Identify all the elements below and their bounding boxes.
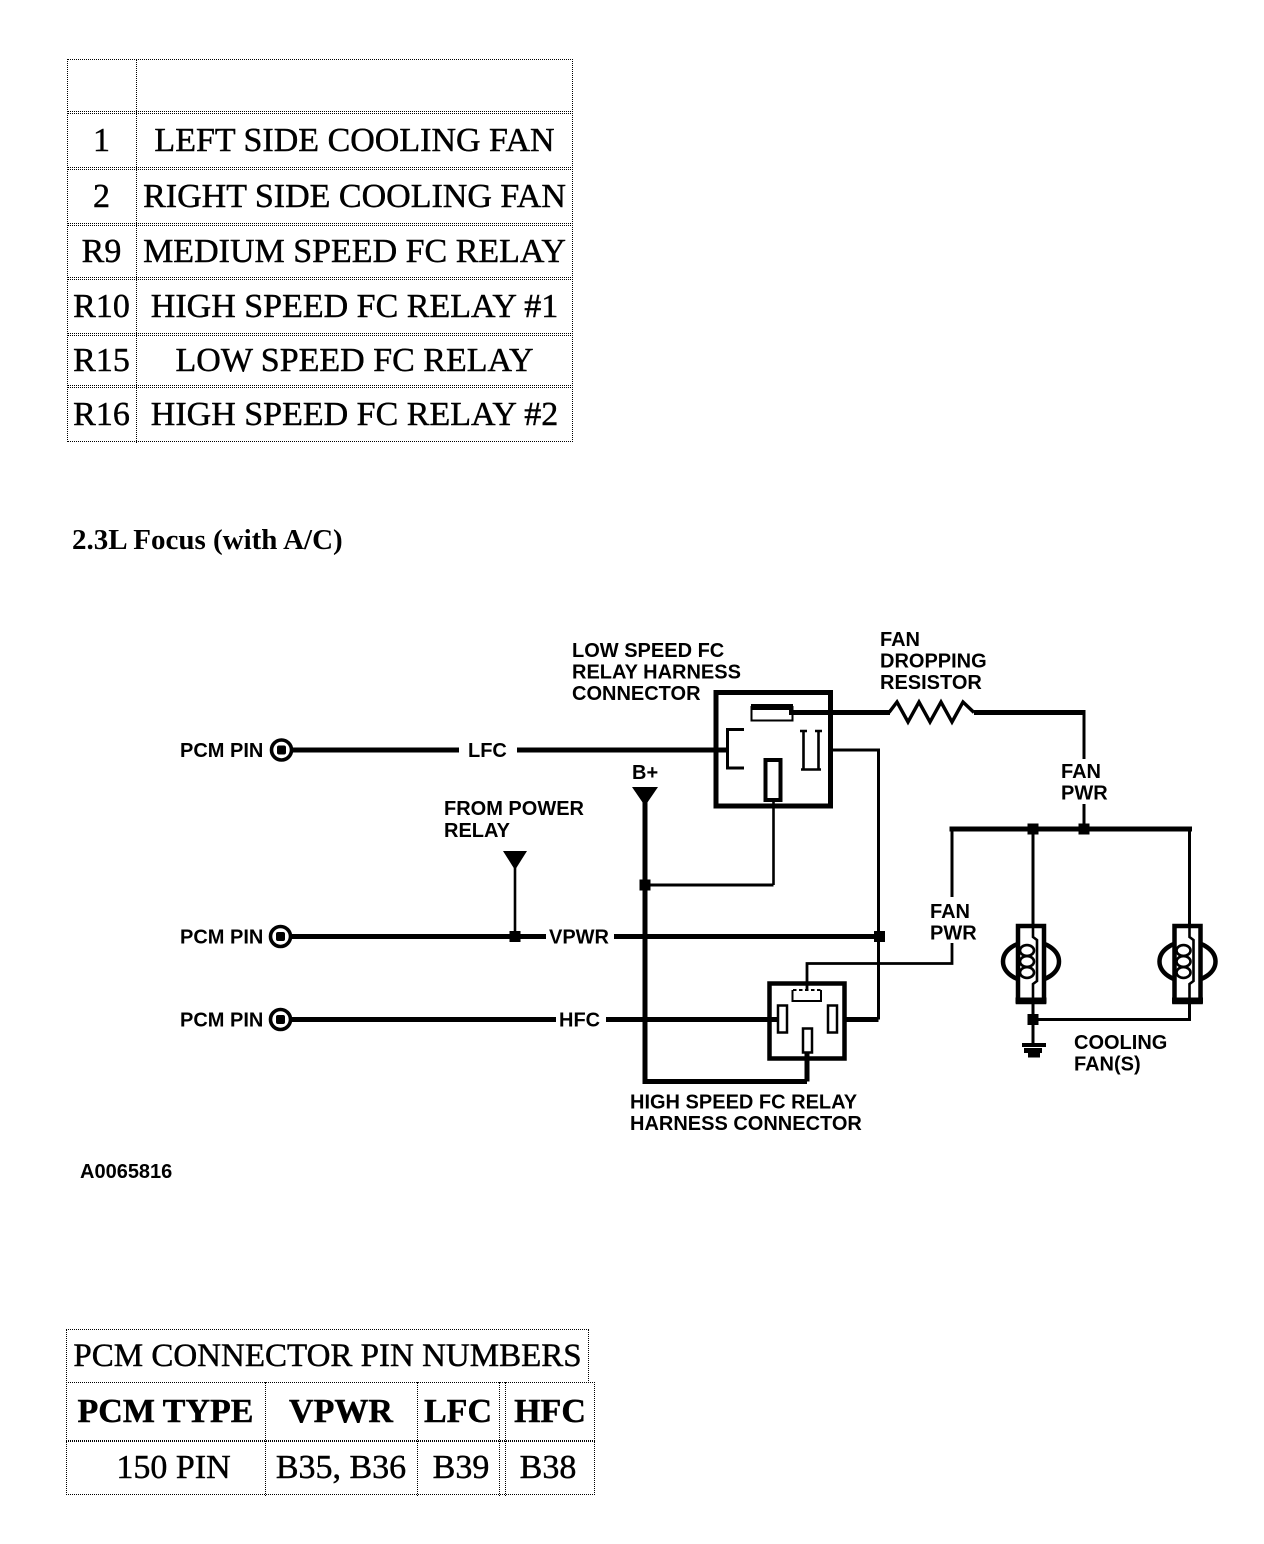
- node FAN PWR (top): [1061, 761, 1108, 805]
- wire low-speed relay output: [833, 750, 879, 1020]
- wire HFC from PCM pin: [292, 1017, 556, 1022]
- junction VPWR / relay contact branch: [874, 931, 885, 942]
- wire bus to right fan: [1188, 829, 1191, 926]
- svg-text:RESISTOR: RESISTOR: [880, 672, 982, 694]
- wire resistor to corner: [974, 710, 1086, 715]
- motor left cooling fan: [1003, 926, 1059, 1002]
- pin left (low-speed relay): [728, 730, 745, 769]
- svg-text:PCM PIN: PCM PIN: [180, 927, 263, 949]
- svg-text:B+: B+: [632, 762, 658, 784]
- pin right (low-speed relay): [800, 731, 822, 770]
- svg-text:FROM POWER: FROM POWER: [444, 798, 585, 820]
- svg-text:PWR: PWR: [1061, 783, 1108, 805]
- PCM pin terminal (LFC): [272, 740, 292, 760]
- wire left fan to ground node: [1032, 1002, 1035, 1020]
- junction FAN PWR / bus: [1079, 824, 1090, 835]
- svg-text:VPWR: VPWR: [549, 927, 610, 949]
- wire fan power bus: [950, 827, 1193, 832]
- wire HFC to relay connector: [606, 1017, 778, 1022]
- svg-text:PCM PIN: PCM PIN: [180, 1010, 263, 1032]
- wire LFC from PCM pin: [293, 748, 459, 753]
- pin right (high-speed relay): [828, 1006, 837, 1033]
- wire VPWR from PCM pin: [292, 934, 546, 939]
- wire to ground: [1032, 1025, 1035, 1044]
- connector high-speed FC relay harness (box): [770, 984, 845, 1059]
- wire right fan return: [1033, 1002, 1190, 1020]
- label HIGH SPEED FC RELAY HARNESS CONNECTOR: [630, 1092, 862, 1136]
- svg-text:PCM PIN: PCM PIN: [180, 740, 263, 762]
- wire bus to left fan: [1032, 829, 1035, 926]
- power symbol from-power-relay arrow: [503, 851, 527, 870]
- junction B+ to coil: [640, 880, 651, 891]
- svg-text:HFC: HFC: [559, 1010, 600, 1032]
- label LOW SPEED FC RELAY HARNESS CONNECTOR: [572, 640, 741, 705]
- svg-text:A0065816: A0065816: [80, 1161, 172, 1183]
- wire bus left branch down: [951, 829, 954, 897]
- power symbol B+ arrow: [632, 787, 658, 806]
- ground: [1022, 1043, 1046, 1058]
- svg-text:RELAY HARNESS: RELAY HARNESS: [572, 662, 741, 684]
- svg-text:LOW SPEED FC: LOW SPEED FC: [572, 640, 724, 662]
- svg-text:CONNECTOR: CONNECTOR: [572, 683, 701, 705]
- junction VPWR / power relay: [510, 931, 521, 942]
- pin bar (high-speed relay top contact): [793, 990, 822, 1001]
- svg-text:FAN: FAN: [1061, 761, 1101, 783]
- wire from power relay to VPWR: [514, 864, 517, 937]
- svg-text:HARNESS CONNECTOR: HARNESS CONNECTOR: [630, 1113, 862, 1135]
- svg-text:COOLING: COOLING: [1074, 1032, 1167, 1054]
- wire FAN PWR branch to relay top pin: [807, 943, 952, 990]
- motor right cooling fan: [1160, 926, 1216, 1002]
- svg-text:PWR: PWR: [930, 923, 977, 945]
- pin bar (low-speed relay top contact): [751, 707, 793, 721]
- junction left fan / bus: [1028, 824, 1039, 835]
- PCM pin terminal (VPWR): [271, 927, 291, 947]
- svg-text:RELAY: RELAY: [444, 820, 511, 842]
- label FROM POWER RELAY: [444, 798, 585, 842]
- wire high-speed relay coil to B+: [805, 1052, 810, 1082]
- wire FAN PWR to bus: [1083, 804, 1086, 831]
- label COOLING FAN(S): [1074, 1032, 1167, 1076]
- pin coil (low-speed relay bottom): [766, 760, 781, 800]
- svg-text:LFC: LFC: [468, 740, 507, 762]
- node FAN PWR (left branch): [930, 901, 977, 945]
- pin left (high-speed relay): [778, 1006, 787, 1033]
- PCM pin terminal (HFC): [271, 1010, 291, 1030]
- wire coil to B+ line: [645, 884, 774, 887]
- connector low-speed FC relay harness (box): [716, 693, 831, 807]
- junction fan return / ground: [1028, 1014, 1039, 1025]
- wire relay top pin to resistor: [789, 710, 890, 715]
- wire LFC to relay connector: [517, 748, 727, 753]
- resistor fan dropping: [889, 702, 974, 722]
- svg-text:DROPPING: DROPPING: [880, 651, 987, 673]
- svg-text:FAN: FAN: [880, 629, 920, 651]
- wire corner down to FAN PWR: [1083, 710, 1086, 759]
- wire coil pin down: [772, 800, 775, 885]
- svg-text:HIGH SPEED FC RELAY: HIGH SPEED FC RELAY: [630, 1092, 858, 1114]
- svg-text:FAN(S): FAN(S): [1074, 1054, 1141, 1076]
- wire B+ feed: [645, 798, 807, 1082]
- wire high-speed relay right pin: [845, 1017, 879, 1022]
- wire VPWR to relay branch: [614, 934, 880, 939]
- pin coil (high-speed relay bottom): [803, 1029, 812, 1053]
- label FAN DROPPING RESISTOR: [880, 629, 987, 694]
- svg-text:FAN: FAN: [930, 901, 970, 923]
